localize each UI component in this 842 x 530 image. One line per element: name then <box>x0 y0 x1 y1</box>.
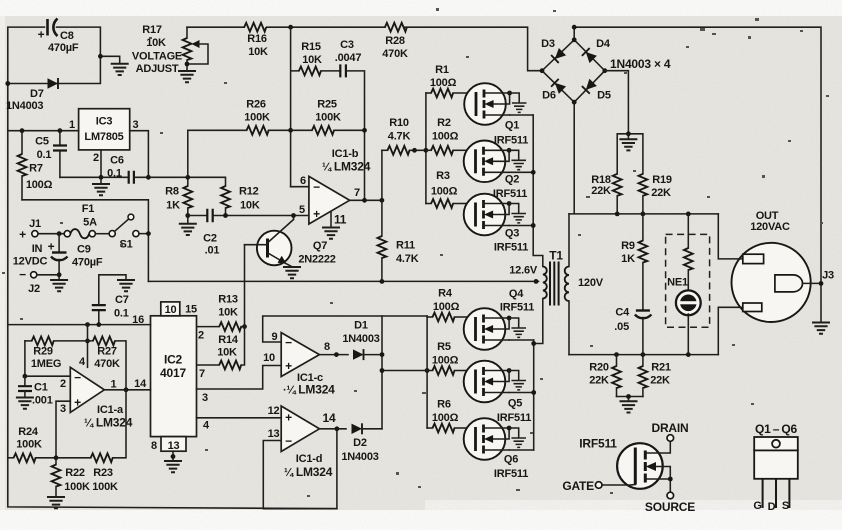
wire fuse to switch <box>95 233 109 235</box>
svg-text:C4: C4 <box>615 307 630 319</box>
svg-text:1: 1 <box>111 379 117 391</box>
wire gate rail R1 R2 R3 <box>424 93 429 204</box>
svg-text:4017: 4017 <box>160 366 186 380</box>
svg-text:R26: R26 <box>246 99 266 111</box>
svg-text:R28: R28 <box>385 35 405 47</box>
svg-text:Q4: Q4 <box>509 288 524 300</box>
svg-text:12.6V: 12.6V <box>509 265 538 277</box>
wire IC1-a pin2 node <box>23 341 71 379</box>
wire bridge bottom to secondary top rail <box>569 102 718 216</box>
ground at Q5 <box>512 381 525 390</box>
wire socket top prong to secondary rail <box>718 214 743 259</box>
svg-text:IRF511: IRF511 <box>579 437 617 451</box>
ground at C7 top <box>118 280 134 291</box>
center-tap rail wire <box>148 279 538 284</box>
connector J3 <box>803 270 834 286</box>
wire IC3 pin2 stem <box>99 150 104 184</box>
wire IC1-a output to IC2 pin14 <box>104 387 150 392</box>
svg-text:1N4003: 1N4003 <box>342 333 379 345</box>
potentiometer R17 voltage adjust <box>132 24 208 75</box>
svg-text:470µF: 470µF <box>72 257 103 269</box>
resistor R5 <box>427 341 467 375</box>
svg-text:IRF511: IRF511 <box>500 302 534 314</box>
diode D3 <box>541 38 566 63</box>
transistor Q4 IRF511 <box>464 288 535 350</box>
resistor R25 <box>291 99 367 135</box>
svg-text:10K: 10K <box>217 347 237 359</box>
transistor Q1 IRF511 <box>464 83 533 146</box>
svg-text:¼ LM324: ¼ LM324 <box>284 465 333 479</box>
svg-text:1N4003: 1N4003 <box>6 100 43 112</box>
capacitor C6 <box>60 155 151 184</box>
svg-text:−: − <box>285 434 292 448</box>
op-amp IC1-d <box>268 405 336 479</box>
svg-text:R7: R7 <box>29 163 43 175</box>
wire IC1-b output node <box>350 150 385 236</box>
wire J2 to C9 bottom <box>37 275 59 280</box>
svg-text:R23: R23 <box>93 467 113 479</box>
IC3 LM7805 regulator <box>69 109 139 164</box>
wire IC1-c pin9 loop to R4 row <box>263 316 427 342</box>
svg-text:J1: J1 <box>29 218 41 230</box>
svg-text:IC1-d: IC1-d <box>296 453 323 465</box>
svg-text:R21: R21 <box>651 362 671 374</box>
svg-text:.01: .01 <box>205 245 220 257</box>
wire IC1-d pin13 feedback loop <box>263 429 337 509</box>
svg-text:100K: 100K <box>92 481 118 493</box>
svg-text:D5: D5 <box>597 90 611 102</box>
ground below C9 <box>51 280 67 291</box>
fuse F1 5A <box>64 203 97 238</box>
wire R7 bottom to S1 feed <box>22 200 148 234</box>
ground at R18 R19 top <box>620 139 636 150</box>
svg-text:NE1: NE1 <box>667 277 688 289</box>
svg-text:100Ω: 100Ω <box>431 186 458 198</box>
svg-text:.05: .05 <box>614 321 629 333</box>
svg-text:100Ω: 100Ω <box>432 412 459 424</box>
svg-text:IC2: IC2 <box>164 353 183 367</box>
wire IC2 bottom tab to ground <box>171 451 176 460</box>
svg-text:+: + <box>48 240 55 254</box>
svg-text:10K: 10K <box>248 46 268 58</box>
resistor R19 <box>639 174 672 214</box>
resistor R10 <box>382 117 426 155</box>
svg-text:14: 14 <box>323 411 336 425</box>
transistor Q7 2N2222 <box>245 213 336 266</box>
diode D1 <box>342 320 382 361</box>
wire drain rail Q4-Q6 <box>531 340 536 450</box>
svg-text:3: 3 <box>133 119 139 131</box>
svg-text:J3: J3 <box>822 270 834 282</box>
svg-text:S: S <box>782 500 789 512</box>
ground at Q4 <box>512 328 525 337</box>
svg-text:10: 10 <box>263 352 275 364</box>
output socket OUT 120VAC <box>732 210 811 322</box>
wire IC1-d pin12 to IC2 pin4 <box>197 417 282 419</box>
svg-text:R5: R5 <box>437 341 451 353</box>
svg-text:10K: 10K <box>218 307 238 319</box>
svg-text:7: 7 <box>354 187 360 199</box>
resistor R22 <box>52 458 90 497</box>
svg-text:1N4003: 1N4003 <box>341 451 378 463</box>
svg-text:3: 3 <box>60 403 66 415</box>
resistor R20 <box>589 355 621 397</box>
resistor R7 <box>18 131 53 200</box>
svg-text:Q6: Q6 <box>504 454 518 466</box>
connector J2 <box>19 268 40 296</box>
resistor inside NE1 box <box>684 214 693 292</box>
svg-text:2N2222: 2N2222 <box>298 254 335 266</box>
svg-text:R19: R19 <box>652 174 672 186</box>
wire drain rail Q1-Q3 to T1 primary top <box>531 115 543 267</box>
svg-text:R12: R12 <box>239 186 259 198</box>
svg-text:C9: C9 <box>77 244 91 256</box>
svg-text:470K: 470K <box>382 48 408 60</box>
svg-text:R15: R15 <box>301 41 321 53</box>
resistor R12 <box>221 186 260 218</box>
resistor R29 <box>25 337 93 371</box>
svg-text:Q1 – Q6: Q1 – Q6 <box>755 422 798 436</box>
svg-text:100K: 100K <box>315 112 341 124</box>
svg-text:1K: 1K <box>166 200 180 212</box>
svg-text:Q7: Q7 <box>313 240 327 252</box>
svg-text:10: 10 <box>165 304 177 316</box>
svg-text:100Ω: 100Ω <box>26 179 53 191</box>
svg-text:3: 3 <box>202 392 208 404</box>
transistor Q2 IRF511 <box>464 141 534 201</box>
svg-text:−: − <box>19 268 26 282</box>
wire IC1-b pin11 ground stem <box>330 212 332 227</box>
svg-text:+: + <box>74 396 81 410</box>
svg-text:+: + <box>285 359 292 373</box>
resistor R8 <box>165 177 192 223</box>
wire socket bottom prong to secondary rail <box>718 307 743 354</box>
resistor R9 <box>621 214 647 310</box>
svg-text:C1: C1 <box>34 382 48 394</box>
resistor R13 <box>197 294 245 332</box>
svg-text:·¼ LM324: ·¼ LM324 <box>283 383 335 397</box>
svg-text:2: 2 <box>60 378 66 390</box>
svg-text:D6: D6 <box>542 90 556 102</box>
svg-text:1K: 1K <box>621 253 635 265</box>
svg-text:R20: R20 <box>589 362 609 374</box>
svg-text:IC3: IC3 <box>96 116 113 128</box>
svg-text:120VAC: 120VAC <box>750 221 790 233</box>
svg-text:10K: 10K <box>240 200 260 212</box>
NE1 dashed enclosure <box>666 234 710 327</box>
svg-text:14: 14 <box>134 378 147 390</box>
wire IC1-c pin10 to IC2 pin3 <box>197 366 282 390</box>
svg-text:¼ LM324: ¼ LM324 <box>322 160 371 174</box>
svg-text:2: 2 <box>198 330 204 342</box>
wire IC1-a pin4 from 16V rail <box>85 325 90 368</box>
connector J1 <box>13 218 48 268</box>
resistor R6 <box>427 399 467 433</box>
svg-text:J2: J2 <box>28 283 40 295</box>
svg-text:7: 7 <box>199 368 205 380</box>
svg-text:R27: R27 <box>97 346 117 358</box>
transistor Q6 IRF511 <box>464 418 534 480</box>
svg-text:470µF: 470µF <box>48 42 79 54</box>
op-amp IC1-b <box>299 148 371 227</box>
resistor R23 <box>91 390 126 493</box>
ground at right rail end <box>813 323 829 334</box>
svg-text:R29: R29 <box>33 346 53 358</box>
capacitor C7 <box>92 275 129 325</box>
op-amp IC1-c <box>263 331 335 397</box>
wire 16V rail to IC2 pin16 <box>8 322 151 327</box>
svg-text:5A: 5A <box>83 217 97 229</box>
svg-text:T1: T1 <box>549 249 563 263</box>
svg-text:4.7K: 4.7K <box>388 131 411 143</box>
svg-text:IC1-b: IC1-b <box>332 148 359 160</box>
diode D7 <box>6 78 58 112</box>
svg-text:−: − <box>285 336 292 350</box>
wire left frame and C8 loop <box>5 27 337 509</box>
resistor R21 <box>639 355 671 397</box>
svg-text:Q2: Q2 <box>505 174 519 186</box>
svg-text:R17: R17 <box>142 24 162 36</box>
resistor R18 <box>591 174 621 214</box>
svg-text:IC1-a: IC1-a <box>97 404 124 416</box>
capacitor C2 <box>188 209 309 257</box>
capacitor C4 <box>614 307 651 355</box>
svg-text:R2: R2 <box>437 117 451 129</box>
svg-text:.001: .001 <box>32 395 53 407</box>
wire rail drop to R15 R26 pin6 column <box>291 27 299 187</box>
svg-text:D2: D2 <box>353 437 367 449</box>
wire IC1-c output node <box>319 352 348 357</box>
svg-text:D7: D7 <box>30 88 44 100</box>
ground below R20 R21 <box>621 401 637 412</box>
svg-text:13: 13 <box>268 428 280 440</box>
resistor R28 <box>382 23 408 60</box>
capacitor C3 <box>335 39 365 200</box>
diode D4 <box>582 38 611 63</box>
resistor R27 <box>93 337 126 390</box>
capacitor C1 <box>18 376 53 406</box>
svg-text:22K: 22K <box>591 185 611 197</box>
svg-text:100K: 100K <box>16 439 42 451</box>
svg-text:C5: C5 <box>35 136 49 148</box>
wire R20 R21 bottom to ground <box>617 394 643 401</box>
svg-text:C6: C6 <box>110 155 124 167</box>
switch S1 <box>109 214 139 250</box>
resistor R4 <box>427 288 467 322</box>
svg-text:IRF511: IRF511 <box>494 468 528 480</box>
svg-text:12: 12 <box>268 405 280 417</box>
svg-text:R9: R9 <box>621 240 635 252</box>
svg-text:R8: R8 <box>165 186 179 198</box>
IC2 4017 counter <box>132 302 210 452</box>
svg-text:13: 13 <box>168 440 180 452</box>
svg-text:R3: R3 <box>436 170 450 182</box>
mosfet pinout symbol IRF511 <box>562 421 695 514</box>
wire bridge right node to R18 R19 bracket <box>605 71 643 174</box>
svg-text:R6: R6 <box>437 399 451 411</box>
svg-text:0.1: 0.1 <box>107 168 122 180</box>
svg-text:100K: 100K <box>244 112 270 124</box>
svg-text:VOLTAGE: VOLTAGE <box>132 51 182 63</box>
svg-text:D: D <box>768 501 776 513</box>
svg-text:+: + <box>38 28 45 42</box>
svg-text:IRF511: IRF511 <box>494 242 528 254</box>
svg-text:15: 15 <box>185 304 197 316</box>
wire Q7 base to R13 R14 junction <box>242 245 247 329</box>
svg-text:F1: F1 <box>82 203 95 215</box>
capacitor C5 <box>35 131 67 178</box>
neon lamp NE1 <box>667 277 701 355</box>
resistor R16 <box>244 23 268 58</box>
ground at IC1-b pin11 <box>323 228 339 239</box>
svg-text:1N4003 × 4: 1N4003 × 4 <box>610 57 671 71</box>
resistor R15 <box>299 41 340 75</box>
wire D1 D2 junction column <box>380 316 385 429</box>
wire IC1-d output node <box>319 426 346 431</box>
svg-text:R10: R10 <box>389 117 409 129</box>
transformer T1 <box>509 214 604 355</box>
svg-text:R24: R24 <box>18 426 39 438</box>
ground below R22 <box>48 497 64 508</box>
svg-text:22K: 22K <box>651 187 671 199</box>
op-amp IC1-a <box>60 356 133 430</box>
ground at IC3 pin2 <box>93 184 109 195</box>
svg-text:0.1: 0.1 <box>114 308 129 320</box>
resistor R24 <box>8 426 91 462</box>
svg-text:9: 9 <box>272 331 278 343</box>
svg-text:12VDC: 12VDC <box>13 256 48 268</box>
svg-text:C7: C7 <box>115 294 129 306</box>
svg-text:11: 11 <box>334 213 347 227</box>
resistor R11 <box>378 236 419 281</box>
svg-text:1: 1 <box>69 119 75 131</box>
svg-text:8: 8 <box>324 341 330 353</box>
svg-text:R4: R4 <box>438 288 453 300</box>
ground below C1 <box>17 398 33 409</box>
svg-text:2: 2 <box>93 152 99 164</box>
wire secondary bottom rail <box>569 352 718 357</box>
resistor R3 <box>426 170 467 208</box>
svg-text:R11: R11 <box>396 240 415 252</box>
wire IC1-a pin3 node <box>56 401 70 458</box>
svg-text:IRF511: IRF511 <box>497 412 531 424</box>
svg-text:120V: 120V <box>578 277 604 289</box>
ground below R17 <box>179 71 195 82</box>
svg-text:R13: R13 <box>218 294 238 306</box>
transistor Q5 IRF511 <box>464 361 534 424</box>
wire IC1-b pin6 row <box>291 186 309 188</box>
svg-text:+: + <box>313 207 320 221</box>
ground at Q7 emitter <box>284 267 300 278</box>
diode D6 <box>542 79 566 102</box>
svg-text:100Ω: 100Ω <box>432 131 459 143</box>
resistor R26 <box>188 99 293 178</box>
capacitor C8 <box>38 19 79 55</box>
svg-text:R22: R22 <box>65 467 85 479</box>
svg-text:R25: R25 <box>317 99 337 111</box>
wire S1 to center-tap rail <box>139 231 151 281</box>
wire +12V top rail <box>187 25 821 322</box>
svg-text:Q1: Q1 <box>505 120 519 132</box>
svg-text:100Ω: 100Ω <box>432 355 459 367</box>
svg-text:GATE: GATE <box>562 479 594 493</box>
svg-text:10K: 10K <box>302 54 322 66</box>
svg-text:100Ω: 100Ω <box>433 301 460 313</box>
svg-text:SOURCE: SOURCE <box>645 500 695 514</box>
ground at C8 loop <box>112 64 128 75</box>
svg-text:+: + <box>285 411 292 425</box>
svg-text:100K: 100K <box>64 481 90 493</box>
svg-text:0.1: 0.1 <box>37 149 52 161</box>
svg-text:G: G <box>753 500 761 512</box>
transistor Q3 IRF511 <box>464 194 534 254</box>
ground below IC2 <box>165 461 181 472</box>
svg-text:D4: D4 <box>596 38 611 50</box>
svg-text:5: 5 <box>299 204 305 216</box>
svg-text:D1: D1 <box>354 320 368 332</box>
resistor R2 <box>426 117 467 155</box>
ground at Q1 <box>513 103 526 112</box>
wire junction to R5 row <box>382 368 430 373</box>
resistor R1 <box>426 64 468 97</box>
package drawing Q1-Q6 TO-220 <box>753 422 797 513</box>
svg-text:C8: C8 <box>60 30 74 42</box>
svg-text:Q5: Q5 <box>508 398 522 410</box>
svg-text:100Ω: 100Ω <box>430 77 457 89</box>
svg-text:DRAIN: DRAIN <box>652 421 689 435</box>
svg-text:22K: 22K <box>650 375 670 387</box>
svg-text:IRF511: IRF511 <box>494 135 528 147</box>
ground at Q2 <box>512 160 525 169</box>
svg-text:470K: 470K <box>94 358 120 370</box>
svg-text:C3: C3 <box>340 39 354 51</box>
svg-text:LM7805: LM7805 <box>84 131 123 143</box>
svg-text:−: − <box>74 371 81 385</box>
svg-text:4.7K: 4.7K <box>396 253 419 265</box>
svg-text:R16: R16 <box>247 33 267 45</box>
svg-text:+: + <box>19 228 26 242</box>
svg-text:−: − <box>313 180 320 194</box>
svg-text:IN: IN <box>32 243 43 255</box>
diode bridge wires <box>540 25 608 105</box>
wire J1 to fuse <box>38 231 64 236</box>
diode D2 <box>341 423 382 463</box>
capacitor C9 <box>48 234 103 277</box>
svg-text:8: 8 <box>151 440 157 452</box>
svg-text:6: 6 <box>300 175 306 187</box>
ground below R8 <box>180 224 196 235</box>
svg-text:ADJUST: ADJUST <box>136 63 179 75</box>
svg-text:D3: D3 <box>541 38 555 50</box>
ground at Q6 <box>512 438 525 447</box>
wire gate rail R4 R5 R6 <box>426 316 428 428</box>
svg-text:R14: R14 <box>218 334 239 346</box>
ground at Q3 <box>512 214 525 223</box>
wire 5V rail to R8 R12 <box>148 175 225 186</box>
diode D5 <box>582 79 611 102</box>
resistor R14 <box>197 327 245 370</box>
svg-text:Q3: Q3 <box>505 228 519 240</box>
svg-text:.0047: .0047 <box>335 52 362 64</box>
wire IC3 pin1 row <box>8 128 79 133</box>
svg-text:C2: C2 <box>203 233 217 245</box>
svg-text:22K: 22K <box>589 375 609 387</box>
svg-text:1MEG: 1MEG <box>31 358 61 370</box>
wire IC3 pin3 to C6 node <box>130 131 149 178</box>
svg-text:R1: R1 <box>435 64 449 76</box>
